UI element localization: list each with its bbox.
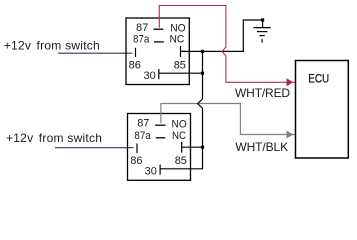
svg-text:NO: NO [172, 118, 187, 130]
relay K2 box [128, 114, 191, 181]
wire +12v to relay K1 pin 86 [58, 52, 132, 54]
wire relay K1 pin 85 to ground [181, 20, 263, 51]
relay K1 pin 85 tick [180, 46, 182, 57]
svg-text:85: 85 [174, 59, 186, 71]
svg-text:87: 87 [137, 118, 149, 130]
relay K1 pin 86 tick [135, 48, 137, 57]
svg-text:86: 86 [130, 155, 142, 167]
svg-text:87a: 87a [134, 131, 151, 143]
svg-text:WHT/BLK: WHT/BLK [235, 140, 288, 154]
svg-text:30: 30 [145, 165, 157, 177]
svg-text:30: 30 [144, 70, 156, 82]
svg-text:+12vfrom switch: +12vfrom switch [6, 131, 102, 145]
ECU box [296, 61, 349, 159]
svg-text:87a: 87a [133, 34, 150, 46]
svg-text:+12vfrom switch: +12vfrom switch [4, 39, 100, 53]
svg-text:WHT/RED: WHT/RED [235, 86, 290, 100]
junction dot bus/ground line [201, 50, 204, 53]
wire relay K1 pin 30 to bus [159, 72, 202, 74]
svg-text:87: 87 [136, 22, 148, 34]
svg-text:86: 86 [129, 59, 141, 71]
relay K1 pin 87a contact dash [154, 41, 164, 43]
junction dot bus/K2 pin85 [201, 146, 204, 149]
relay K2 pin 85 tick [181, 142, 183, 153]
wire WHT/RED relay K1 pin 87 to ECU (red, with hop over ground line) [159, 6, 295, 83]
svg-text:85: 85 [175, 155, 187, 167]
svg-text:ECU: ECU [308, 73, 329, 86]
relay K1 pin 87 contact dash [154, 28, 164, 30]
ground symbol [254, 20, 271, 43]
ground node junction dot [261, 18, 264, 21]
svg-text:NC: NC [172, 130, 186, 142]
arrowhead WHT/BLK [287, 131, 294, 139]
arrowhead WHT/RED [287, 78, 294, 86]
relay K1 pin 30 tick [158, 69, 160, 79]
wire relay K2 pin 85 to bus [182, 146, 202, 148]
wire +12v to relay K2 pin 86 [55, 147, 134, 149]
relay K1 box [126, 18, 189, 85]
relay K2 pin 87 contact dash [155, 124, 165, 126]
relay K2 pin 30 tick [159, 165, 161, 175]
ground bus wire (vertical, with hop over gray wire) [161, 51, 203, 168]
svg-text:NC: NC [170, 33, 185, 45]
wire WHT/BLK relay K2 pin 87 to ECU (gray) [161, 104, 295, 135]
relay K2 pin 86 tick [136, 144, 138, 154]
relay K2 pin 87a contact dash [156, 137, 166, 139]
junction dot bus/pin30 [201, 72, 204, 75]
